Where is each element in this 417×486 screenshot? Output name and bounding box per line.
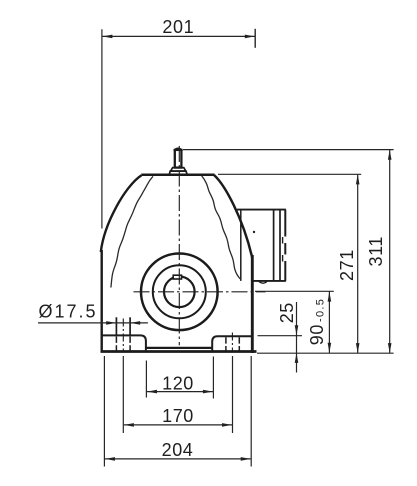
horizontal centerline [134,291,266,293]
cast surface wavy line right [202,176,241,280]
housing body outline [101,175,257,353]
keyway [173,275,181,279]
output hub outer circle [141,253,218,330]
dimension 201 [102,29,255,229]
extension line axis right [255,290,334,292]
svg-text:271: 271 [337,249,357,281]
dimension 25 [296,302,298,373]
dimension 120 [146,357,213,399]
left foot bolt hole [116,317,130,352]
extension line foot top right [258,335,303,337]
svg-text:201: 201 [162,17,194,37]
dimension 204 [104,356,251,467]
output hub middle circle [153,265,206,318]
left foot [103,335,146,350]
cast surface wavy line left [111,176,153,287]
svg-text:204: 204 [162,440,194,460]
svg-text:311: 311 [366,236,386,267]
svg-text:170: 170 [162,406,194,426]
extension line top 311 [183,149,394,151]
extension line top 271 [218,173,361,175]
dimension 170 [123,356,232,433]
extension line base right [257,352,394,354]
dimension 271 [357,174,359,353]
svg-text:120: 120 [162,373,194,393]
motor flange block [237,210,286,284]
breather plug stem [169,148,187,174]
right foot bolt hole [226,333,239,353]
vertical centerline [178,146,180,345]
svg-text:25: 25 [277,302,297,323]
spot mark [253,231,255,233]
output bore circle [164,277,195,308]
dimension 311 [389,150,391,354]
svg-text:Ø17.5: Ø17.5 [39,302,98,322]
right foot [212,336,251,350]
dimension 90-0.5 [328,292,330,353]
